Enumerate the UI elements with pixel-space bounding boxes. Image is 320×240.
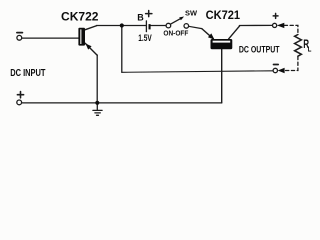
wire bottom rail bbox=[22, 102, 222, 104]
svg-text:1.5V: 1.5V bbox=[138, 33, 152, 44]
junction ground node bbox=[95, 101, 99, 105]
ground wire stub bbox=[96, 103, 98, 111]
terminal plus output bbox=[273, 23, 277, 27]
svg-text:DC INPUT: DC INPUT bbox=[10, 68, 45, 79]
wire collector node down bbox=[121, 26, 123, 73]
transistor Q1 CK722 emitter arrow (PNP) bbox=[86, 44, 92, 50]
transistor Q1 CK722 base bar bbox=[78, 28, 85, 46]
switch SW throw bbox=[184, 24, 189, 29]
terminal minus input bbox=[17, 35, 22, 40]
terminal plus input bbox=[17, 100, 22, 105]
wire input to Q1 base bbox=[22, 37, 79, 39]
transistor Q2 CK721 collector lead bbox=[229, 26, 240, 39]
wire top rail bbox=[97, 25, 147, 27]
junction node B collector bbox=[120, 23, 124, 27]
label plus (input) bbox=[17, 92, 23, 98]
wire Q1 emitter to ground bbox=[96, 55, 98, 103]
svg-text:CK722: CK722 bbox=[61, 10, 99, 24]
svg-text:DC OUTPUT: DC OUTPUT bbox=[239, 44, 280, 54]
wire Q2 base down bbox=[221, 49, 223, 103]
wire Q2 collector to plus output bbox=[239, 24, 272, 26]
transistor Q1 CK722 collector lead bbox=[85, 26, 97, 30]
label plus (output) bbox=[273, 13, 278, 18]
wire collector node to minus output bbox=[122, 71, 273, 73]
terminal minus output bbox=[273, 68, 277, 72]
label minus (output) bbox=[274, 64, 279, 66]
transistor Q2 CK721 base bar bbox=[211, 39, 233, 49]
wire switch to Q2 emitter bbox=[189, 26, 202, 28]
wire dashed plus output to RL bbox=[284, 25, 298, 34]
switch SW pole bbox=[166, 23, 171, 28]
switch SW lever bbox=[170, 18, 181, 24]
switch SW lever arrowhead bbox=[179, 17, 184, 21]
svg-text:L: L bbox=[308, 44, 312, 53]
ground symbol bbox=[93, 110, 102, 115]
wire dashed RL to minus output bbox=[284, 56, 298, 70]
label plus (battery) bbox=[146, 11, 152, 17]
resistor RL zigzag bbox=[295, 35, 302, 57]
wire battery to switch bbox=[151, 25, 166, 27]
arrowhead at plus output bbox=[277, 23, 284, 28]
svg-text:B: B bbox=[137, 12, 144, 22]
arrowhead at minus output bbox=[278, 68, 285, 73]
label minus (input) bbox=[17, 32, 23, 34]
transistor Q1 CK722 emitter lead bbox=[85, 43, 97, 55]
transistor Q2 CK721 emitter arrow (PNP) bbox=[208, 33, 215, 39]
transistor Q2 CK721 emitter lead bbox=[202, 29, 214, 39]
svg-text:CK721: CK721 bbox=[206, 9, 241, 22]
svg-text:ON-OFF: ON-OFF bbox=[163, 31, 189, 38]
battery BT1 long plate bbox=[145, 21, 147, 32]
svg-text:SW: SW bbox=[185, 9, 197, 18]
battery BT1 short plate bbox=[149, 24, 151, 29]
